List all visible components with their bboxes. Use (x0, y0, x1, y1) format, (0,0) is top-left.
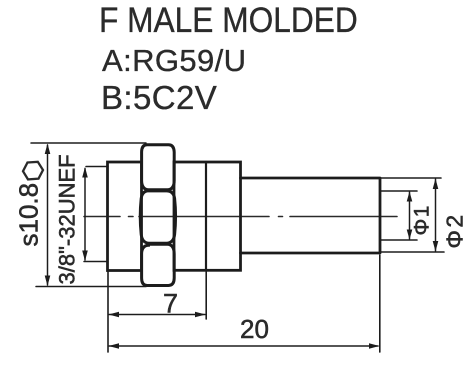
label text A:RG59/U (102, 43, 246, 79)
dimension line 7 (109, 314, 205, 316)
dimension line s10.8 (47, 145, 49, 285)
svg-text:Φ1: Φ1 (411, 204, 434, 235)
hex nut middle facet (140, 191, 175, 243)
dimension text 20 (240, 314, 269, 344)
extension line stem top to phi2 (380, 177, 441, 179)
extension line phi1 top (380, 190, 417, 192)
arrow phi2 bottom (433, 241, 439, 252)
arrow 7 left (109, 312, 120, 318)
hex nut bottom facet (142, 244, 175, 285)
dimension line 20 (109, 345, 378, 347)
label text B:5C2V (101, 79, 217, 117)
collar divider line (205, 162, 207, 270)
svg-text:7: 7 (163, 289, 178, 319)
arrow phi2 top (433, 179, 439, 190)
extension line left (7 and 20 dims) (107, 272, 109, 353)
centerline (dash-dot axis) (84, 216, 397, 218)
arrow s10.8 top (45, 144, 51, 155)
extension line hex bottom (s10.8) (36, 286, 146, 288)
svg-text:Φ2: Φ2 (442, 212, 468, 248)
arrow 20 right (369, 343, 379, 349)
svg-text:20: 20 (240, 314, 269, 344)
svg-text:s10.8: s10.8 (14, 183, 44, 247)
dimension text 3/8"-32UNEF (rotated) (55, 154, 80, 284)
dimension line phi2 (435, 179, 437, 251)
threaded body rectangle (108, 162, 142, 271)
extension line hex top (s10.8) (31, 142, 146, 144)
title text F MALE MOLDED (99, 1, 358, 41)
arrow 3/8-32UNEF bottom (82, 251, 88, 262)
stem cylinder (241, 178, 381, 253)
dimension text phi2 (rotated) (442, 212, 468, 248)
arrow s10.8 bottom (45, 276, 51, 287)
dimension line 3/8-32UNEF (84, 169, 86, 261)
hexagon symbol of s10.8 label (23, 162, 43, 180)
arrow 20 left (109, 343, 120, 349)
arrow phi1 bottom (407, 230, 413, 240)
dimension text s10.8 (rotated) (14, 183, 44, 247)
dimension line phi1 (409, 192, 411, 239)
extension line thread bottom (3/8-32UNEF) (84, 261, 107, 263)
extension line phi1 bottom (380, 239, 417, 241)
arrow phi1 top (407, 192, 413, 202)
svg-text:3/8"-32UNEF: 3/8"-32UNEF (55, 154, 80, 284)
extension line middle (7 dim right end) (205, 272, 207, 320)
dimension text 7 (163, 289, 178, 319)
dimension text phi1 (rotated) (411, 204, 434, 235)
collar section rectangle (174, 162, 241, 270)
extension line thread top (3/8-32UNEF) (86, 166, 108, 168)
extension line stem bottom to phi2 (380, 251, 444, 253)
arrow 3/8-32UNEF top (82, 167, 88, 178)
arrow 7 right (195, 312, 206, 318)
hex nut top facet (142, 145, 175, 190)
extension line right (20 dim right end) (379, 255, 381, 352)
